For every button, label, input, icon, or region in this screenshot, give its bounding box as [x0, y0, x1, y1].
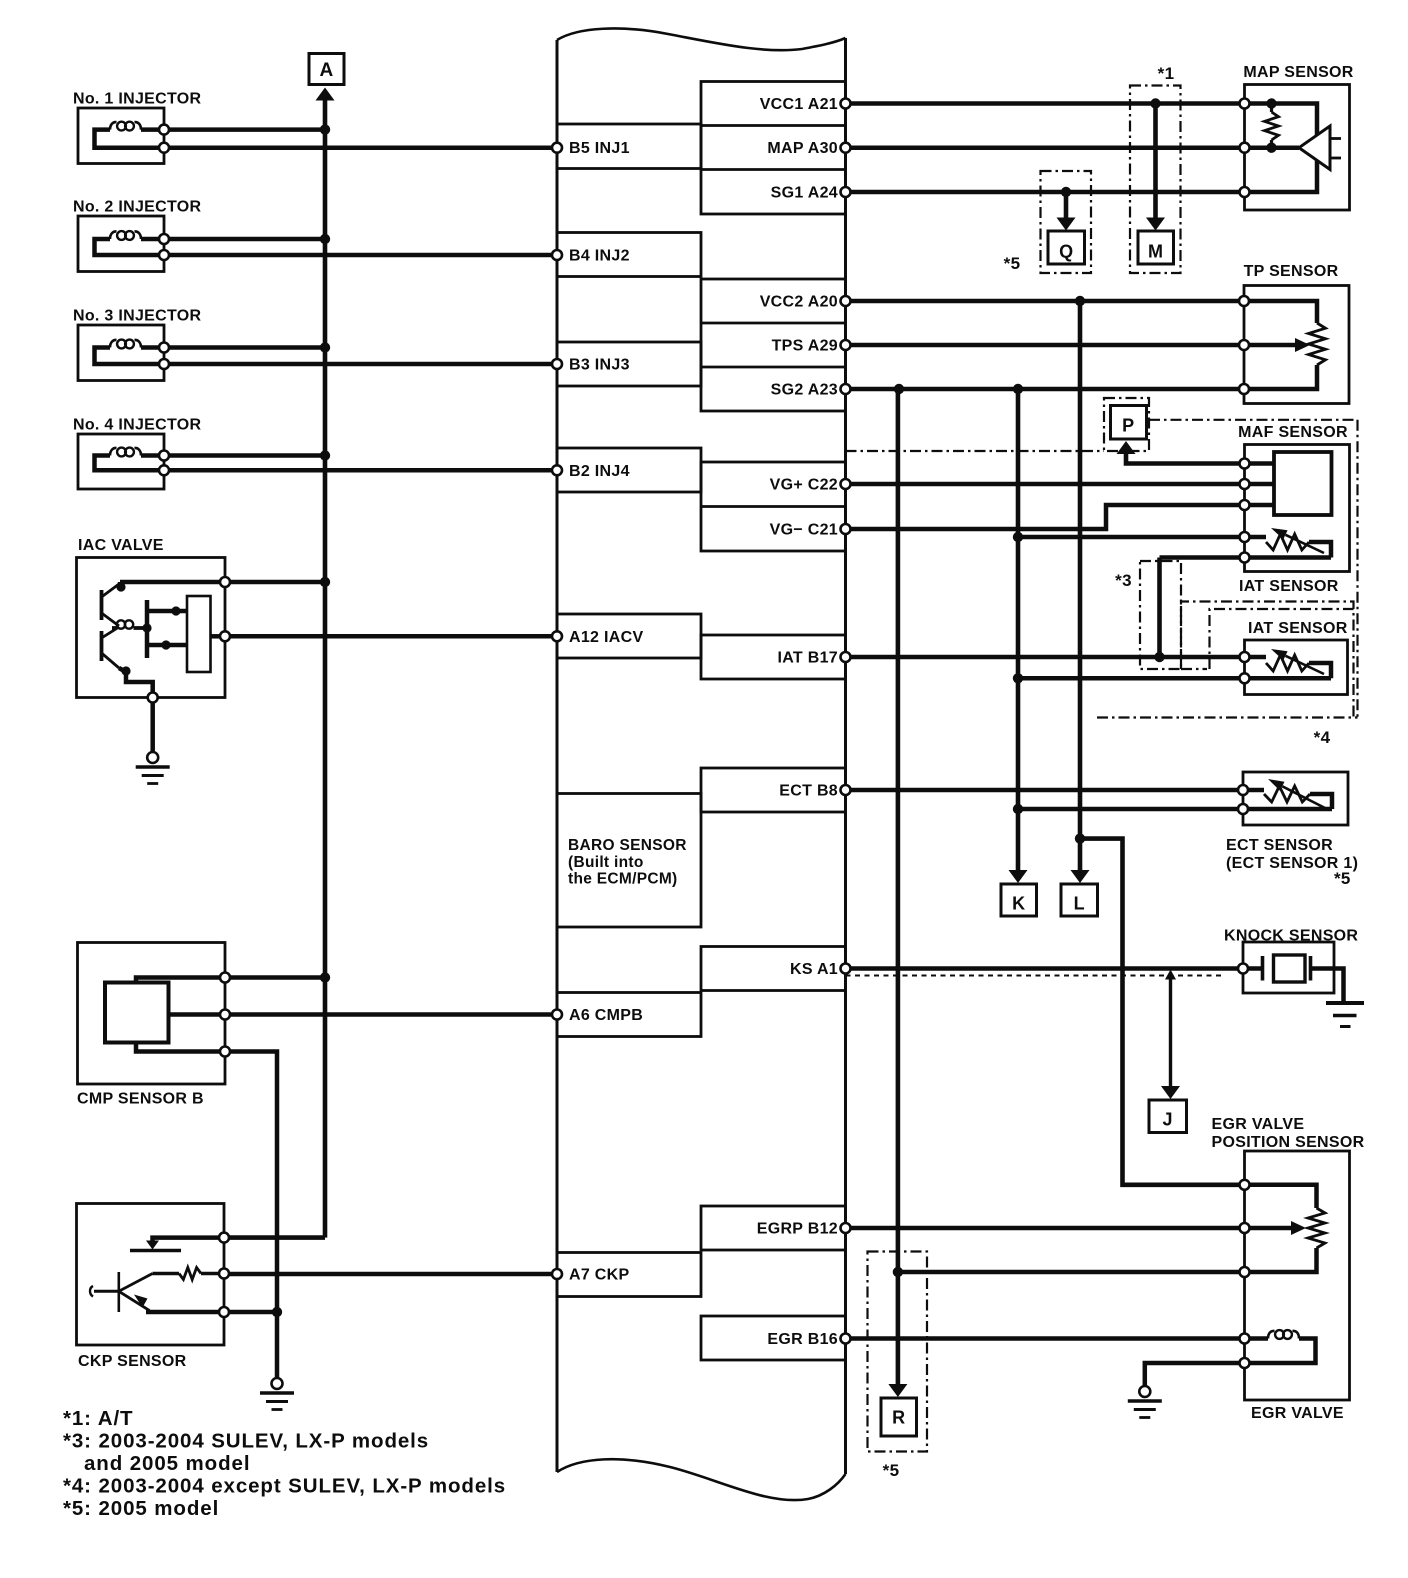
wire MAP A30 to MAP sensor [846, 145, 1245, 150]
IAC terminal top [220, 577, 230, 587]
MAF terminal 2 [1240, 479, 1250, 489]
EGR pos sensor terminal 1 [1240, 1180, 1250, 1190]
injector No.2 terminal bottom [159, 250, 169, 260]
injector No.4 coil [141, 453, 164, 458]
TP sensor box [1244, 286, 1349, 404]
junction K branch / MAF IAT [1013, 532, 1023, 542]
wire MAF terminal 1 to P [1126, 452, 1245, 464]
svg-text:EGR B16: EGR B16 [767, 1331, 838, 1348]
MAF IAT thermistor [1245, 535, 1267, 540]
wire injector No.3 to bus A [164, 345, 325, 350]
pin terminal A6 CMPB [552, 1010, 562, 1020]
pin terminal row 3 [552, 359, 562, 369]
svg-text:TP SENSOR: TP SENSOR [1244, 263, 1339, 280]
svg-text:B5 INJ1: B5 INJ1 [569, 140, 630, 157]
wire injector No.1 to bus A [164, 127, 325, 132]
MAP sensor terminal 3 [1240, 187, 1250, 197]
EGR pos sensor terminal 3 [1240, 1267, 1250, 1277]
arrow into Q [1057, 218, 1076, 231]
ECM pin box B2 INJ4 [557, 448, 701, 492]
EGR valve terminal 2 [1240, 1358, 1250, 1368]
IAC valve box [77, 558, 226, 698]
injector No.1 terminal bottom [159, 143, 169, 153]
MAF terminal 5 (IAT) [1240, 553, 1250, 563]
pin terminal MAP A30 [841, 143, 851, 153]
svg-text:No. 1 INJECTOR: No. 1 INJECTOR [73, 91, 202, 108]
wire TPS A29 to TP sensor [846, 343, 1245, 348]
MAP sensor internals [1245, 104, 1318, 193]
wire CMP to bus A [225, 975, 325, 980]
svg-text:EGR VALVE: EGR VALVE [1251, 1405, 1344, 1422]
CMP sensor element [105, 983, 169, 1043]
MAP sensor terminal 1 [1240, 99, 1250, 109]
ECM pin box B5 INJ1 [557, 124, 701, 169]
svg-text:*5: *5 [1004, 254, 1021, 273]
node J box [1149, 1100, 1187, 1133]
wire SG1 A24 to MAP sensor [846, 190, 1245, 195]
ground (IAC valve) [136, 765, 170, 769]
wire SG2 branch to R [896, 389, 901, 1384]
EGR valve terminal 1 [1240, 1334, 1250, 1344]
CMP terminal mid [220, 1010, 230, 1020]
*5 dashed box (R) [868, 1252, 928, 1452]
wire SG2 A23 to TP sensor [846, 387, 1245, 392]
pin terminal IAT B17 [841, 652, 851, 662]
CKP sensor internals [153, 1238, 225, 1244]
CKP terminal bottom [219, 1307, 229, 1317]
wire IAT B17 to IAT sensor [846, 655, 1245, 660]
ground (CKP/CMP) [260, 1391, 294, 1395]
svg-text:SG2 A23: SG2 A23 [771, 382, 838, 399]
svg-text:CKP SENSOR: CKP SENSOR [78, 1353, 187, 1370]
injector No.2 coil [141, 237, 164, 242]
svg-text:*1: *1 [1158, 64, 1175, 83]
svg-text:B3 INJ3: B3 INJ3 [569, 357, 630, 374]
wire SG2 branch to K [1016, 389, 1021, 870]
wire injector No.3 to ECM pin [164, 362, 557, 367]
shield junction triangle [1165, 970, 1176, 980]
MAF terminal 3 [1240, 500, 1250, 510]
node R box [881, 1398, 917, 1436]
injector No.3 internal wire [95, 348, 165, 365]
wire to connector M [1153, 104, 1158, 219]
svg-text:Q: Q [1059, 242, 1073, 262]
svg-text:B4 INJ2: B4 INJ2 [569, 248, 630, 265]
pin terminal SG1 A24 [841, 187, 851, 197]
arrow into M [1146, 218, 1165, 231]
svg-text:MAF SENSOR: MAF SENSOR [1238, 424, 1348, 441]
arrow into J [1161, 1086, 1180, 1099]
MAF terminal 1 [1240, 459, 1250, 469]
ECM pin box IAT B17 [701, 635, 846, 679]
MAP sensor terminal 2 [1240, 143, 1250, 153]
IAT sensor thermistor [1245, 655, 1267, 660]
svg-text:CMP SENSOR B: CMP SENSOR B [77, 1091, 204, 1108]
svg-text:K: K [1012, 894, 1025, 914]
svg-text:J: J [1163, 1110, 1173, 1130]
arrow into P [1117, 441, 1136, 454]
junction K branch / ECT [1013, 804, 1023, 814]
knock sensor terminal [1238, 964, 1248, 974]
svg-text:MAP SENSOR: MAP SENSOR [1243, 64, 1353, 81]
svg-text:A7 CKP: A7 CKP [569, 1267, 630, 1284]
wire CMP bottom [136, 1043, 225, 1052]
svg-text:B2 INJ4: B2 INJ4 [569, 463, 630, 480]
svg-text:and 2005 model: and 2005 model [84, 1452, 250, 1475]
MAF terminal 4 (IAT) [1240, 532, 1250, 542]
svg-text:IAT SENSOR: IAT SENSOR [1239, 578, 1339, 595]
TP terminal 1 [1239, 296, 1249, 306]
*3 dashed box [1140, 561, 1181, 669]
pin terminal TPS A29 [841, 340, 851, 350]
svg-text:M: M [1148, 242, 1163, 262]
node M box [1138, 231, 1174, 264]
wire ECT B8 to ECT sensor [846, 788, 1244, 793]
pin terminal A7 CKP [552, 1269, 562, 1279]
injector No.2 terminal top [159, 234, 169, 244]
injector No.2 internal wire [95, 239, 165, 255]
ECM pin box A12 IACV [557, 614, 701, 658]
wire injector No.1 to ECM pin [164, 145, 557, 150]
pin terminal SG2 A23 [841, 384, 851, 394]
node P dashed box [1104, 398, 1149, 451]
wire injector No.2 to ECM pin [164, 253, 557, 258]
svg-text:A12 IACV: A12 IACV [569, 629, 643, 646]
wire VCC2 A20 to TP sensor [846, 299, 1245, 304]
node Q box [1048, 231, 1085, 264]
ECM BARO SENSOR box [557, 794, 701, 928]
wire MAF IAT top to K branch [1018, 535, 1245, 540]
svg-text:*4: 2003-2004 except SULEV, LX: *4: 2003-2004 except SULEV, LX-P models [63, 1475, 506, 1498]
pin terminal KS A1 [841, 964, 851, 974]
injector No.4 internal wire [95, 456, 165, 471]
arrow into R [888, 1384, 907, 1397]
pin terminal VG+ C22 [841, 479, 851, 489]
wire ground node down [275, 1312, 280, 1378]
CKP terminal top [219, 1233, 229, 1243]
svg-text:EGRP B12: EGRP B12 [757, 1221, 838, 1238]
wire injector No.4 to ECM pin [164, 468, 557, 473]
TP terminal 2 [1239, 340, 1249, 350]
svg-text:ECT SENSOR: ECT SENSOR [1226, 837, 1333, 854]
node L box [1061, 884, 1098, 916]
junction VCC2 / L branch [1075, 296, 1085, 306]
pin terminal VCC2 A20 [841, 296, 851, 306]
pin terminal VCC1 A21 [841, 99, 851, 109]
wire CKP bottom to ground node [224, 1310, 277, 1315]
svg-text:EGR VALVE: EGR VALVE [1212, 1116, 1305, 1133]
svg-text:*4: *4 [1314, 728, 1331, 747]
ground (EGR valve) [1128, 1399, 1162, 1403]
svg-text:ECT B8: ECT B8 [779, 783, 838, 800]
svg-text:IAT B17: IAT B17 [778, 650, 838, 667]
svg-text:IAC VALVE: IAC VALVE [78, 537, 164, 554]
ground (knock sensor) [1326, 1001, 1364, 1005]
ECM pin box A7 CKP [557, 1253, 701, 1297]
junction CKP/CMP ground node [272, 1307, 282, 1317]
ECT sensor thermistor [1243, 788, 1264, 793]
node K box [1001, 884, 1037, 916]
pin terminal ECT B8 [841, 785, 851, 795]
svg-text:No. 3 INJECTOR: No. 3 INJECTOR [73, 308, 202, 325]
wire EGR B16 to EGR valve [846, 1336, 1245, 1341]
wire VCC1 A21 to MAP sensor [846, 101, 1245, 106]
wire KS A1 to knock sensor [846, 966, 1244, 971]
injector No.3 terminal top [159, 343, 169, 353]
ECM pin group VCC2/TPS/SG2 [701, 279, 846, 411]
svg-text:SG1 A24: SG1 A24 [771, 185, 838, 202]
pin terminal row 4 [552, 465, 562, 475]
svg-text:*3: 2003-2004 SULEV, LX-P mode: *3: 2003-2004 SULEV, LX-P models [63, 1430, 429, 1453]
wire EGR pot low to R branch [898, 1270, 1245, 1275]
svg-text:POSITION SENSOR: POSITION SENSOR [1212, 1134, 1365, 1151]
junction K branch / IAT 2 [1013, 673, 1023, 683]
svg-text:No. 4 INJECTOR: No. 4 INJECTOR [73, 417, 202, 434]
TP sensor potentiometer [1244, 301, 1317, 323]
injector No.3 terminal bottom [159, 359, 169, 369]
CKP terminal mid [219, 1269, 229, 1279]
junction SG2 / R branch [894, 384, 904, 394]
svg-text:(Built into: (Built into [568, 854, 644, 871]
knock sensor crystal [1243, 966, 1263, 971]
arrow into L [1071, 870, 1090, 883]
svg-text:No. 2 INJECTOR: No. 2 INJECTOR [73, 199, 202, 216]
junction VCC1 / M branch [1150, 98, 1160, 108]
pin terminal A12 IACV [552, 631, 562, 641]
pin terminal EGRP B12 [841, 1223, 851, 1233]
svg-text:TPS A29: TPS A29 [772, 338, 838, 355]
ECM pin box KS A1 [701, 947, 846, 991]
svg-text:P: P [1122, 416, 1134, 436]
wire CMP to A6 CMPB pin [225, 1012, 557, 1017]
wire IAT sensor 2 to K branch [1018, 676, 1245, 681]
svg-text:*1: A/T: *1: A/T [63, 1407, 133, 1430]
IAT sensor terminal 2 [1240, 673, 1250, 683]
pin terminal row 1 [552, 143, 562, 153]
IAT sensor terminal 1 [1240, 652, 1250, 662]
svg-text:*5: *5 [1334, 869, 1351, 888]
injector No.1 terminal top [159, 125, 169, 135]
CMP terminal bottom [220, 1047, 230, 1057]
junction bus A / injector No.1 [320, 124, 330, 134]
CKP SENSOR box [77, 1204, 225, 1346]
svg-text:MAP A30: MAP A30 [767, 140, 838, 157]
CMP SENSOR B box [78, 943, 226, 1085]
wire main bus A vertical [323, 99, 328, 1238]
wire VG+ C22 to MAF [846, 482, 1245, 487]
junction L branch / EGR pot [1075, 833, 1085, 843]
wire injector No.2 to bus A [164, 237, 325, 242]
ECT sensor box [1243, 772, 1348, 825]
ECM pin box A6 CMPB [557, 993, 701, 1037]
wire VCC2 branch to L [1078, 301, 1083, 870]
EGRP wiper arrow [1291, 1221, 1306, 1235]
MAP sensor box [1245, 85, 1350, 211]
TP wiper arrow [1295, 338, 1310, 352]
wire ECT bottom to K branch [1018, 807, 1243, 812]
CMP terminal top [220, 973, 230, 983]
IAT sensor box [1245, 640, 1348, 695]
IAT sensor thermistor arrow [1286, 656, 1325, 674]
wire CMP bottom to CKP ground node [225, 1052, 277, 1313]
injector No.4 terminal top [159, 451, 169, 461]
svg-text:VG+ C22: VG+ C22 [770, 477, 838, 494]
svg-text:BARO SENSOR: BARO SENSOR [568, 837, 687, 854]
wire IAC to ground [150, 703, 155, 752]
wire VG- C21 to MAF [846, 505, 1245, 529]
svg-text:A6 CMPB: A6 CMPB [569, 1007, 643, 1024]
ECM pin box EGR B16 [701, 1316, 846, 1360]
wire MAF IAT to IAT B17 line [1157, 558, 1162, 658]
junction SG1 / Q branch [1061, 187, 1071, 197]
svg-text:R: R [892, 1408, 905, 1428]
wire VCC2 branch to EGR position sensor [1080, 839, 1245, 1185]
MAF sensor element [1274, 452, 1332, 515]
ECM pin box ECT B8 [701, 768, 846, 812]
wire CMP top [136, 978, 225, 983]
IAC valve internals [187, 596, 211, 672]
*4 dashed box [1181, 602, 1354, 718]
EGR valve / position sensor box [1245, 1151, 1350, 1400]
TP terminal 3 [1239, 384, 1249, 394]
ECT terminal 1 [1238, 785, 1248, 795]
svg-text:*5: *5 [883, 1461, 900, 1480]
*5 dashed box (Q) [1041, 171, 1092, 273]
wire injector No.4 to bus A [164, 453, 325, 458]
ECM pin box B3 INJ3 [557, 342, 701, 386]
ECM pin box B4 INJ2 [557, 233, 701, 277]
MAP internal resistor [1265, 112, 1279, 140]
junction bus A / injector No.4 [320, 450, 330, 460]
node A box [309, 54, 344, 85]
IAC valve coil [112, 626, 117, 630]
svg-text:IAT SENSOR: IAT SENSOR [1248, 620, 1348, 637]
wire shield to connector J [1169, 979, 1172, 1086]
arrow into K [1009, 870, 1028, 883]
ECM pin box EGRP B12 [701, 1206, 846, 1250]
wire CKP to A7 CKP pin [224, 1272, 557, 1277]
ECM/PCM main strip [556, 40, 559, 1472]
wire IAC to bus A [225, 580, 325, 585]
shield (dashed) of KS wire [846, 975, 1225, 977]
svg-text:*5: 2005 model: *5: 2005 model [63, 1497, 219, 1520]
wire EGR valve to ground [1145, 1363, 1245, 1386]
EGR pos sensor terminal 2 [1240, 1223, 1250, 1233]
pin terminal EGR B16 [841, 1334, 851, 1344]
svg-text:L: L [1074, 894, 1085, 914]
wire IAC to A12 IACV pin [225, 634, 557, 639]
junction bus A / injector No.2 [320, 234, 330, 244]
pin terminal row 2 [552, 250, 562, 260]
ECT thermistor arrow [1282, 786, 1325, 808]
wire EGRP B12 to sensor [846, 1226, 1245, 1231]
svg-text:KS A1: KS A1 [790, 961, 838, 978]
ECM pin group VCC1/MAP/SG1 [701, 82, 846, 215]
junction bus A / IAC [320, 577, 330, 587]
svg-text:VCC2 A20: VCC2 A20 [760, 294, 838, 311]
MAF sensor box [1245, 445, 1350, 572]
junction SG2 / K branch [1013, 384, 1023, 394]
injector No.1 coil [141, 127, 164, 132]
MAF IAT thermistor arrow [1286, 535, 1325, 553]
wire to connector Q [1064, 192, 1069, 218]
svg-text:VCC1 A21: VCC1 A21 [760, 96, 838, 113]
IAC terminal bottom [148, 693, 158, 703]
svg-text:the ECM/PCM): the ECM/PCM) [568, 871, 678, 888]
junction IAT B17 / MAF IAT [1154, 652, 1164, 662]
node P box [1111, 406, 1147, 440]
injector No.3 coil [141, 345, 164, 350]
svg-text:A: A [319, 60, 333, 81]
ECM pin group VG+/VG- [701, 462, 846, 551]
MAP transducer triangle [1299, 126, 1330, 170]
junction R branch / EGR pot [893, 1267, 903, 1277]
svg-text:VG− C21: VG− C21 [770, 522, 838, 539]
EGR position sensor potentiometer [1245, 1185, 1317, 1208]
IAC terminal mid [220, 631, 230, 641]
svg-text:*3: *3 [1115, 571, 1132, 590]
knock sensor box [1243, 942, 1334, 993]
CKP internal resistor [179, 1268, 201, 1280]
pin terminal VG- C21 [841, 524, 851, 534]
junction bus A / injector No.3 [320, 342, 330, 352]
junction bus A / CMP [320, 972, 330, 982]
wire CMP mid [169, 1012, 226, 1017]
injector No.4 terminal bottom [159, 465, 169, 475]
node A arrow [316, 88, 335, 101]
*1 dashed box (A/T) [1130, 86, 1181, 274]
dash-dot region boundary (MAF variant) [846, 450, 1105, 452]
injector No.1 internal wire [95, 130, 165, 148]
ECT terminal 2 [1238, 804, 1248, 814]
wire bus to CKP top terminal [224, 1235, 326, 1240]
